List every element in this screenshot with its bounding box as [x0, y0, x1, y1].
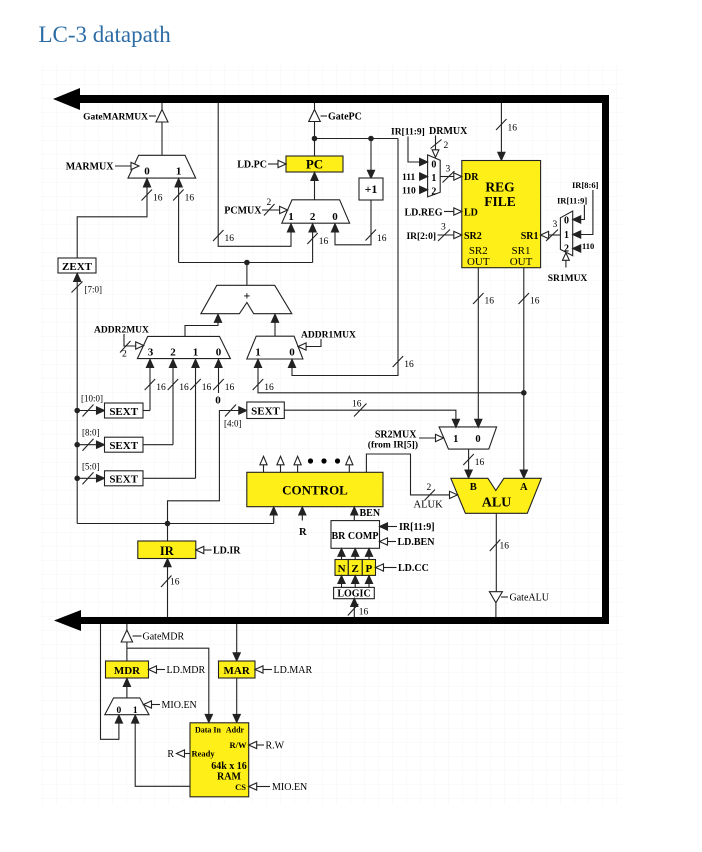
svg-text:111: 111: [402, 173, 415, 183]
wire MIO mux to MDR: [126, 686, 128, 698]
register N box: [335, 560, 348, 576]
wire IR[11:9] lead br: [387, 526, 397, 528]
arrow LOGIC Z up: [352, 576, 359, 584]
arrow MDR in: [123, 678, 130, 686]
slash IR[2:0] 3: [438, 230, 450, 242]
svg-text:SR2MUX: SR2MUX: [375, 429, 417, 440]
arrow DRMUX select open: [432, 150, 439, 158]
svg-text:LC-3 datapath: LC-3 datapath: [39, 22, 172, 47]
wire adder out vertical: [246, 263, 248, 286]
mux MIO.EN body: [105, 698, 149, 715]
arrow N up: [338, 549, 345, 557]
node junction SEXT A tap: [74, 408, 80, 414]
slash ADDR2MUX select 2: [120, 341, 131, 353]
svg-text:MIO.EN: MIO.EN: [272, 782, 307, 793]
mux ADDR1MUX body: [247, 336, 303, 359]
svg-text:1: 1: [431, 173, 436, 184]
svg-text:IR[11:9]: IR[11:9]: [557, 196, 587, 206]
svg-text:PCMUX: PCMUX: [224, 206, 262, 217]
svg-text:ADDR2MUX: ADDR2MUX: [94, 326, 149, 336]
wire IR[11:9] to DRMUX in0: [408, 137, 420, 163]
svg-text:OUT: OUT: [467, 256, 490, 268]
slash SEXT B [8:0]: [83, 439, 94, 451]
wire control top arrow 1: [263, 465, 265, 473]
slash REG in 16: [496, 119, 507, 130]
svg-text:1: 1: [453, 434, 458, 445]
svg-text:R/W: R/W: [230, 740, 248, 750]
arrow Z up: [352, 549, 359, 557]
mux DRMUX body: [428, 155, 441, 197]
svg-text:GateALU: GateALU: [510, 592, 550, 603]
svg-text:+1: +1: [365, 182, 378, 196]
slash SEXT D out 16: [354, 404, 367, 417]
slash PCMUX select 2: [264, 204, 275, 216]
svg-text:LD.PC: LD.PC: [237, 160, 267, 171]
svg-text:2: 2: [444, 141, 449, 151]
wire BEN arrow: [353, 514, 355, 520]
wire GatePC to PC: [314, 122, 316, 157]
arrow SR1MUX in2: [573, 245, 581, 252]
wire LD.MDR lead: [156, 669, 165, 671]
svg-text:GateMARMUX: GateMARMUX: [83, 113, 148, 123]
svg-text:SR1: SR1: [521, 231, 539, 242]
arrow ADDR1MUX in0: [288, 359, 295, 367]
svg-text:16: 16: [264, 383, 274, 393]
svg-text:[8:0]: [8:0]: [82, 428, 100, 438]
slash MARMUX in1 16: [173, 190, 184, 201]
svg-text:16: 16: [156, 383, 166, 393]
wire R.W lead: [257, 744, 265, 746]
slash in2 16: [168, 379, 179, 390]
bus right vertical: [602, 95, 609, 624]
svg-text:CONTROL: CONTROL: [282, 482, 348, 497]
node dots control outputs: [308, 458, 313, 463]
arrow R.W open: [249, 741, 257, 748]
svg-text:RAM: RAM: [217, 771, 241, 782]
arrow ADDR2MUX in3: [146, 359, 153, 367]
slash in1 16: [190, 379, 201, 390]
wire ADDR2MUX select: [124, 334, 137, 346]
arrow MIO.EN select open: [144, 701, 152, 708]
slash SEXT C [5:0]: [83, 472, 94, 484]
arrow PCMUX in0: [331, 224, 338, 232]
svg-text:MDR: MDR: [114, 665, 141, 677]
adder body: [201, 285, 292, 313]
arrow LD.MDR open: [149, 666, 157, 673]
wire IR[11:9] to SR1MUX in0: [581, 205, 585, 220]
svg-text:2: 2: [427, 483, 432, 493]
wire IR[8:6] to SR1MUX in1: [581, 190, 593, 235]
arrow control out2 open: [277, 456, 284, 465]
svg-text:16: 16: [475, 458, 485, 468]
svg-text:B: B: [470, 482, 477, 493]
wire MARMUX select lead: [115, 165, 132, 167]
wire LD.CC lead: [383, 567, 396, 569]
arrow PCMUX out into PC: [311, 172, 318, 180]
bus top left arrowhead: [53, 88, 80, 110]
wire control top arrow 2: [280, 465, 282, 473]
arrow SEXT C in: [97, 475, 105, 482]
alu ALU body: [451, 478, 542, 513]
arrow SR1MUX in1: [573, 231, 581, 238]
arrow LOGIC N up: [338, 576, 345, 584]
arrow MARMUX in0: [143, 179, 150, 188]
arrow R into control: [299, 507, 306, 515]
mux ADDR2MUX body: [137, 336, 230, 358]
box SEXT B: [105, 437, 144, 452]
gate GateMDR triangle: [121, 630, 132, 642]
slash in0 16: [213, 379, 224, 390]
arrow ALUK open: [450, 491, 458, 498]
arrow SEXT A in: [97, 407, 105, 414]
svg-text:LD.BEN: LD.BEN: [398, 537, 436, 548]
arrow into +1: [367, 170, 374, 178]
arrow DRMUX in0: [420, 158, 428, 165]
arrow SR1MUX in0: [573, 216, 581, 223]
svg-text:2: 2: [267, 198, 272, 208]
slash DRMUX out 3: [443, 171, 455, 183]
arrow REG FILE in: [498, 152, 505, 160]
wire LD.REG lead: [444, 211, 454, 213]
slash ALU out 16: [490, 540, 501, 552]
wire bus to MAR: [236, 624, 238, 653]
register Z box: [348, 560, 362, 576]
svg-text:IR[2:0]: IR[2:0]: [406, 232, 436, 242]
wire Ready lead: [184, 753, 190, 755]
svg-text:OUT: OUT: [510, 256, 533, 268]
wire bus to GatePC: [314, 103, 316, 111]
wire CS MIO.EN lead: [257, 786, 271, 788]
arrow ZEXT in: [74, 273, 81, 281]
wire SR1OUT vertical: [523, 268, 525, 471]
slash SR1OUT 16: [519, 293, 530, 304]
wire GateMARMUX to MARMUX: [161, 122, 163, 155]
svg-text:Data In: Data In: [195, 725, 222, 734]
arrow ALU A in: [520, 470, 527, 478]
svg-text:3: 3: [148, 347, 154, 359]
slash DRMUX select 2: [431, 140, 442, 149]
svg-text:0: 0: [431, 159, 436, 170]
svg-text:ZEXT: ZEXT: [62, 261, 93, 273]
wire PCMUX in2 vertical: [312, 232, 314, 263]
svg-text:0: 0: [475, 434, 480, 445]
gate GatePC triangle: [309, 110, 321, 122]
svg-text:[7:0]: [7:0]: [85, 285, 103, 295]
wire ADDR1MUX out to adder: [274, 322, 276, 336]
wire ADDR2MUX in3 vertical: [149, 367, 151, 411]
arrow SEXT D in: [239, 407, 247, 414]
bus bottom horizontal: [75, 617, 609, 624]
control unit CONTROL box: [247, 472, 383, 506]
bus bottom left arrowhead: [54, 610, 81, 631]
svg-text:16: 16: [485, 297, 495, 307]
arrow ADDR2MUX in1: [192, 359, 199, 367]
svg-text:[4:0]: [4:0]: [224, 419, 242, 429]
svg-text:MIO.EN: MIO.EN: [162, 700, 197, 711]
wire ADDR1MUX select: [306, 339, 322, 347]
svg-text:16: 16: [153, 194, 163, 204]
svg-text:IR[8:6]: IR[8:6]: [572, 180, 599, 190]
wire R arrow stub: [301, 514, 303, 520]
svg-text:GateMDR: GateMDR: [143, 632, 185, 643]
svg-text:1: 1: [176, 166, 182, 178]
wire control top arrow 3: [297, 465, 299, 473]
wire ALUK from control: [366, 454, 449, 495]
svg-text:PC: PC: [306, 157, 323, 172]
arrow MARMUX select open: [131, 162, 139, 169]
svg-text:2: 2: [170, 347, 176, 359]
arrow MIOmux in0: [115, 715, 122, 723]
wire GateALU to bus: [495, 602, 497, 617]
register file REG FILE box: [462, 161, 541, 268]
wire bus to LOGIC: [353, 606, 355, 617]
svg-text:16: 16: [202, 383, 212, 393]
svg-text:1: 1: [564, 230, 569, 241]
svg-text:SEXT: SEXT: [109, 406, 138, 418]
wire N to BRCOMP: [341, 556, 343, 560]
box SEXT A: [105, 403, 144, 418]
wire ADDR1MUX in1 down right to SR1OUT: [258, 367, 524, 393]
arrow LD.PC open: [278, 160, 286, 167]
mux PCMUX body: [282, 200, 350, 223]
arrow LD.MAR open: [255, 666, 263, 673]
svg-text:A: A: [520, 482, 528, 493]
arrow SR1 open: [541, 231, 549, 238]
wire branch down to +1: [370, 139, 372, 172]
arrow control out1 open: [260, 456, 267, 465]
wire GateMDR to MDR: [126, 642, 128, 661]
svg-text:16: 16: [185, 194, 195, 204]
arrow control out4 open: [346, 456, 353, 465]
figure background grid: [38, 64, 622, 804]
svg-text:64k x 16: 64k x 16: [211, 761, 247, 772]
svg-text:LD: LD: [464, 207, 478, 218]
wire MARMUX in0 from ZEXT: [77, 186, 147, 258]
wire bus loop to PCMUX in1: [218, 103, 291, 246]
wire PCMUX select lead: [262, 209, 281, 211]
svg-text:(from IR[5]): (from IR[5]): [368, 439, 418, 450]
arrow CS open: [249, 783, 257, 790]
arrow adder right in: [271, 314, 278, 322]
arrow SR1MUX select open: [563, 253, 570, 260]
svg-text:2: 2: [431, 186, 436, 197]
svg-text:BEN: BEN: [360, 508, 381, 519]
wire LD.PC lead: [268, 163, 279, 165]
svg-text:LD.IR: LD.IR: [213, 546, 241, 557]
gate GateMARMUX triangle: [156, 110, 168, 123]
svg-text:P: P: [366, 563, 373, 575]
node junction adder out: [244, 260, 250, 266]
wire bus to IR: [167, 567, 169, 618]
wire SR1MUX select stub: [565, 260, 567, 267]
svg-text:0: 0: [332, 211, 338, 223]
svg-text:0: 0: [216, 347, 222, 359]
wire MAR to RAM Addr: [236, 678, 238, 715]
slash PCMUX in2 16: [307, 233, 318, 244]
wire SEXT D input from IR line: [168, 411, 240, 524]
wire DRMUX out: [440, 176, 454, 178]
svg-text:N: N: [338, 563, 346, 575]
svg-text:LD.MAR: LD.MAR: [274, 665, 313, 676]
node junction SEXT C tap: [74, 476, 80, 482]
wire SEXT A out to ADDR2MUX in3: [143, 410, 150, 412]
svg-text:0: 0: [564, 216, 569, 227]
svg-text:[5:0]: [5:0]: [82, 461, 100, 471]
svg-text:0: 0: [117, 706, 122, 716]
arrow control in from IR: [270, 507, 277, 515]
svg-text:110: 110: [582, 241, 594, 251]
svg-text:R: R: [167, 749, 174, 760]
slash LOGIC in 16: [348, 604, 359, 616]
svg-text:1: 1: [133, 706, 138, 716]
wire ADDR1MUX in0 from PC line: [292, 139, 398, 376]
slash SR2OUT 16: [473, 293, 484, 304]
svg-text:110: 110: [402, 187, 416, 197]
wire MDR branch to RAM DataIn: [127, 648, 209, 714]
wire SEXT B out to ADDR2MUX in2: [143, 444, 173, 446]
slash in3 16: [145, 379, 156, 390]
node junction SEXT B tap: [74, 442, 80, 448]
arrow ADDR2MUX in2: [169, 359, 176, 367]
svg-text:LD.MDR: LD.MDR: [167, 665, 206, 676]
wire SR2MUX select lead: [419, 437, 436, 439]
arrow LD.BEN open: [380, 538, 388, 545]
svg-text:0: 0: [215, 395, 221, 407]
box +1: [359, 178, 383, 200]
svg-text:FILE: FILE: [484, 194, 516, 209]
svg-text:1: 1: [255, 347, 261, 359]
svg-text:Ready: Ready: [192, 749, 216, 759]
slash ALUK 2: [425, 490, 436, 501]
arrow SR2 open: [454, 231, 462, 238]
svg-text:1: 1: [193, 347, 199, 359]
arrow DR open: [454, 173, 462, 180]
wire GateMARMUX label lead: [149, 115, 156, 117]
svg-text:R.W: R.W: [266, 741, 285, 752]
register MAR box: [219, 661, 256, 678]
wire SR1MUX out: [548, 234, 560, 236]
svg-text:ADDR1MUX: ADDR1MUX: [301, 330, 356, 340]
slash SEXT A [10:0]: [83, 405, 94, 417]
wire ZEXT trunk down to IR line: [76, 281, 78, 524]
wire PCMUX out: [314, 180, 316, 200]
arrow IR in: [164, 559, 171, 567]
box PC: [286, 156, 343, 172]
svg-text:3: 3: [441, 223, 446, 233]
wire bus loop to MIOmux in0: [101, 624, 119, 739]
svg-text:2: 2: [310, 211, 316, 223]
arrow MARMUX in1: [175, 179, 182, 188]
register P box: [362, 560, 375, 576]
wire LD.IR lead: [204, 549, 212, 551]
arrow BEN into control: [351, 507, 358, 515]
svg-text:[10:0]: [10:0]: [81, 394, 103, 404]
svg-text:16: 16: [500, 542, 510, 552]
svg-text:0: 0: [144, 166, 150, 178]
node junction SR1OUT to ADDR1MUX: [521, 390, 527, 396]
wire GatePC label lead: [321, 115, 328, 117]
wire SR2OUT vertical: [477, 268, 479, 420]
svg-text:R: R: [299, 527, 307, 538]
svg-text:DR: DR: [464, 172, 479, 183]
arrow DRMUX in1: [420, 173, 428, 180]
svg-text:IR[11:9]: IR[11:9]: [391, 128, 425, 138]
wire bus to REG FILE: [500, 103, 502, 153]
svg-text:16: 16: [530, 297, 540, 307]
wire +1 output to PCMUX in0: [335, 200, 371, 245]
wire control top arrow 4: [348, 465, 350, 473]
arrow DRMUX in2: [420, 186, 428, 193]
wire bus to GateMDR: [126, 624, 128, 631]
wire LOGIC to Z: [354, 583, 356, 587]
wire LD.MAR lead: [263, 669, 272, 671]
wire ADDR2MUX in0 constant stub: [218, 367, 220, 393]
slash IR in 16: [161, 576, 172, 588]
svg-text:REG: REG: [485, 179, 515, 194]
svg-text:16: 16: [352, 400, 362, 410]
mux MARMUX body: [128, 155, 196, 178]
svg-text:IR: IR: [160, 544, 175, 558]
wire LD.BEN lead: [387, 541, 396, 543]
wire ADDR2MUX in1 vertical: [195, 367, 197, 478]
arrow ADDR2MUX select open: [136, 342, 144, 349]
wire GateALU label lead: [501, 596, 508, 598]
node junction IR top: [165, 521, 171, 527]
svg-text:LOGIC: LOGIC: [337, 588, 370, 599]
svg-text:GatePC: GatePC: [328, 112, 362, 123]
arrow adder left in: [214, 314, 221, 322]
slash MARMUX in0 16: [142, 190, 153, 201]
arrow LD open: [454, 208, 462, 215]
arrow PCMUX in2: [309, 224, 316, 232]
wire ADDR2MUX in2 vertical: [172, 367, 174, 445]
slash SEXT D [4:0]: [225, 405, 236, 417]
wire LOGIC to P: [368, 583, 370, 587]
svg-text:16: 16: [170, 578, 180, 588]
svg-text:0: 0: [289, 347, 295, 359]
arrow SR2MUX in0: [475, 419, 482, 427]
wire SEXT D out to SR2MUX in1: [284, 410, 456, 420]
svg-text:2: 2: [122, 350, 127, 360]
gate GateALU triangle: [489, 592, 502, 603]
arrow LD.CC open: [376, 564, 384, 571]
wire IR[2:0] lead: [438, 234, 455, 236]
comparator BR COMP box: [331, 521, 380, 549]
wire SEXT A input: [77, 410, 97, 412]
svg-text:2: 2: [564, 244, 569, 255]
svg-text:1: 1: [288, 211, 294, 223]
svg-text:16: 16: [359, 608, 369, 618]
arrow IR[11:9] into BR COMP: [380, 523, 388, 530]
svg-text:LD.REG: LD.REG: [404, 207, 442, 218]
wire RAM out to MIOmux in1: [135, 723, 190, 786]
svg-text:16: 16: [225, 383, 235, 393]
svg-text:16: 16: [377, 234, 387, 244]
wire control bottom in: [273, 514, 275, 523]
arrow P up: [365, 549, 372, 557]
arrow LOGIC P up: [365, 576, 372, 584]
wire LOGIC to N: [341, 583, 343, 587]
slash SR1MUX out 3: [546, 230, 558, 242]
wire MARMUX in1 vertical: [178, 186, 180, 263]
arrow ADDR1MUX in1: [254, 359, 261, 367]
svg-text:ALUK: ALUK: [414, 499, 444, 510]
svg-text:SEXT: SEXT: [109, 474, 138, 486]
arrow PCMUX in1: [287, 224, 294, 232]
svg-text:ALU: ALU: [482, 496, 512, 511]
wire MIO.EN select lead: [151, 704, 160, 706]
arrow SR2MUX select open: [436, 434, 444, 441]
